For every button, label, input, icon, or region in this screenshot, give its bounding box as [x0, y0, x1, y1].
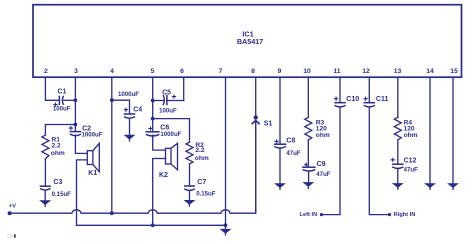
svg-text:0.15uF: 0.15uF	[52, 191, 72, 198]
svg-text:C11: C11	[376, 96, 389, 103]
node K2 ground bus	[151, 223, 155, 227]
pin 4 label	[110, 68, 114, 75]
capacitor C8	[275, 137, 301, 157]
svg-text:47uF: 47uF	[316, 171, 331, 178]
pin 7 wire	[225, 77, 227, 225]
ground	[40, 201, 50, 207]
capacitor C5	[159, 90, 177, 115]
svg-text:3: 3	[74, 68, 78, 75]
pin 11 wire	[339, 77, 341, 102]
capacitor C4	[118, 91, 142, 118]
node Right IN	[388, 213, 391, 216]
wire zobel branch ch1	[45, 125, 75, 136]
svg-text:Left IN: Left IN	[300, 212, 318, 218]
svg-text:C12: C12	[404, 157, 417, 164]
svg-text:2.2: 2.2	[52, 143, 61, 150]
wire K2 to ground bus	[153, 159, 166, 226]
wire C1 to pin3	[64, 99, 76, 101]
speaker K1	[87, 143, 99, 177]
resistor R2	[186, 142, 209, 164]
+V rail wire	[10, 124, 256, 213]
svg-text:C4: C4	[133, 107, 142, 114]
svg-text:47uF: 47uF	[404, 166, 419, 173]
svg-text:+V: +V	[9, 204, 16, 210]
wire C11 to Right IN	[369, 107, 389, 215]
pin 10 wire	[307, 77, 309, 117]
wire R2 branch ch2	[153, 119, 190, 142]
wire C10 to Left IN	[321, 107, 340, 215]
pin 4 wire	[111, 77, 113, 213]
svg-text:100uF: 100uF	[159, 107, 177, 114]
wire C7 to ground	[189, 191, 191, 201]
ground	[125, 135, 135, 141]
ground	[185, 200, 195, 206]
IC U1 box	[33, 5, 462, 78]
svg-text:ohm: ohm	[404, 132, 418, 139]
capacitor C10	[335, 96, 360, 107]
svg-text:9: 9	[278, 68, 282, 75]
node pin3 branch	[74, 123, 78, 127]
pin 10 label	[303, 68, 311, 75]
capacitor C1	[53, 89, 71, 113]
pin 13 label	[394, 68, 402, 75]
capacitor C3	[40, 179, 71, 198]
wire C6 to speaker K2	[153, 135, 166, 150]
svg-text:C1: C1	[57, 89, 66, 96]
svg-text:12: 12	[362, 68, 370, 75]
svg-text:8: 8	[251, 68, 255, 75]
wire C9 to ground	[308, 171, 310, 183]
svg-text:C8: C8	[286, 137, 295, 144]
node pin4 rail	[110, 211, 114, 215]
ground	[221, 225, 231, 235]
node Left IN	[320, 213, 323, 216]
ground	[425, 184, 435, 190]
svg-text:1000uF: 1000uF	[118, 91, 139, 98]
resistor R3	[305, 117, 330, 139]
svg-text:10: 10	[303, 68, 311, 75]
svg-text:4: 4	[110, 68, 114, 75]
wire C12 to ground	[397, 168, 399, 183]
svg-text:1000uF: 1000uF	[160, 131, 181, 138]
pin 14 wire	[429, 77, 431, 183]
svg-text:0.15uF: 0.15uF	[196, 191, 216, 198]
svg-text:C9: C9	[317, 161, 326, 168]
wire C2 to speaker K1	[75, 135, 87, 153]
svg-text:K2: K2	[159, 172, 168, 179]
wire C3 to ground	[44, 190, 46, 200]
svg-text:14: 14	[426, 68, 434, 75]
speaker K2	[159, 143, 178, 179]
ground bus wire	[77, 224, 226, 226]
svg-text:S1: S1	[264, 121, 273, 128]
node +V	[8, 211, 12, 215]
wire pin5 to C5	[153, 100, 163, 102]
capacitor C11	[364, 96, 388, 107]
capacitor C6	[146, 124, 181, 138]
svg-text:Right IN: Right IN	[394, 212, 416, 218]
svg-text:ohm: ohm	[195, 155, 209, 162]
node Left IN label	[300, 212, 318, 218]
svg-text:1000uF: 1000uF	[82, 131, 103, 138]
pin 14 label	[426, 68, 434, 75]
pin 6 wire	[183, 77, 185, 100]
capacitor C2	[69, 126, 102, 139]
node pin3/C1	[74, 98, 78, 102]
ground	[275, 184, 285, 190]
pin 5 label	[151, 68, 155, 75]
node pin4/C4 branch	[110, 98, 114, 102]
svg-text:7: 7	[219, 68, 223, 75]
wire R2 to C7	[189, 164, 191, 186]
svg-text:2: 2	[44, 68, 48, 75]
svg-text:2.2: 2.2	[195, 147, 204, 154]
svg-text:11: 11	[333, 68, 340, 75]
svg-text:5: 5	[151, 68, 155, 75]
pin 3 label	[74, 68, 78, 75]
pin 2 wire	[45, 77, 59, 100]
pin 9 label	[278, 68, 282, 75]
wire R3 to C9	[307, 140, 309, 167]
svg-text:C3: C3	[53, 179, 62, 186]
node Right IN label	[394, 212, 416, 218]
ground	[304, 183, 314, 189]
wire C5 to pin 6	[167, 100, 183, 102]
pin 15 label	[450, 68, 458, 75]
node pin7 ground bus	[224, 223, 228, 227]
svg-text:C7: C7	[197, 179, 206, 186]
stray mark	[7, 233, 16, 239]
pin 2 label	[44, 68, 48, 75]
svg-text:C10: C10	[346, 96, 359, 103]
capacitor C7	[185, 179, 216, 198]
pin 5 wire	[152, 77, 154, 130]
wire R4 to C12	[397, 140, 399, 164]
wire pin4 to C4	[112, 100, 130, 114]
node pin5/C5	[151, 99, 155, 103]
node +V label	[9, 204, 16, 210]
capacitor C9	[303, 161, 331, 178]
svg-text:15: 15	[450, 68, 458, 75]
ground	[393, 184, 403, 190]
capacitor C12	[391, 157, 418, 173]
wire K1 to ground bus	[77, 160, 88, 225]
svg-text:ohm: ohm	[51, 150, 65, 157]
pin 15 wire	[452, 77, 454, 183]
svg-text:BA5417: BA5417	[237, 37, 263, 46]
pin 8 label	[251, 68, 255, 75]
pin 9 wire	[279, 77, 281, 144]
switch S1	[252, 116, 272, 213]
resistor R1	[42, 135, 65, 159]
pin 7 label	[219, 68, 223, 75]
svg-text:K1: K1	[88, 170, 97, 177]
svg-text:47uF: 47uF	[286, 150, 301, 157]
pin 8 wire	[255, 77, 257, 115]
svg-text:13: 13	[394, 68, 402, 75]
svg-text:100uF: 100uF	[53, 106, 71, 113]
node pin5/R2 branch	[151, 117, 155, 121]
pin 3 wire	[74, 77, 76, 130]
wire C4 to ground	[129, 118, 131, 135]
pin 11 label	[333, 68, 340, 75]
svg-text:6: 6	[180, 68, 184, 75]
pin 13 wire	[397, 77, 399, 117]
pin 6 label	[180, 68, 184, 75]
pin 12 wire	[368, 77, 370, 102]
pin 12 label	[362, 68, 370, 75]
svg-text:ohm: ohm	[316, 132, 330, 139]
wire R1 to C3	[44, 159, 46, 186]
ground	[448, 184, 458, 190]
resistor R4	[394, 117, 417, 140]
IC1 label	[237, 30, 263, 47]
wire C8 to ground	[279, 148, 281, 184]
